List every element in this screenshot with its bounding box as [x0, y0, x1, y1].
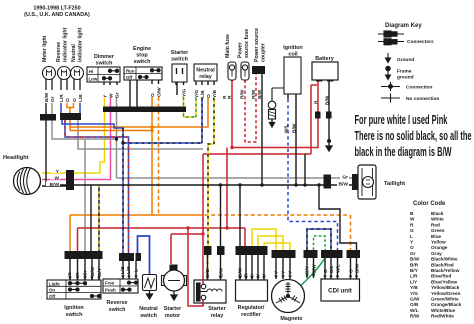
svg-text:(U.S., U.K. AND CANADA): (U.S., U.K. AND CANADA) [24, 12, 90, 18]
svg-text:G: G [410, 228, 414, 233]
svg-text:B/W: B/W [355, 263, 361, 273]
svg-text:No connection: No connection [406, 96, 439, 102]
svg-text:Headlight: Headlight [3, 155, 29, 161]
svg-text:Neutral: Neutral [139, 306, 158, 312]
svg-text:switch: switch [134, 59, 151, 65]
svg-text:W: W [109, 93, 115, 98]
svg-text:G/W: G/W [312, 264, 318, 274]
svg-text:Starter: Starter [171, 50, 189, 56]
svg-text:Black/Yellow: Black/Yellow [431, 268, 460, 273]
svg-text:Battery: Battery [315, 56, 334, 62]
svg-text:black in the diagram is B/W: black in the diagram is B/W [355, 145, 452, 160]
svg-text:ground: ground [397, 75, 414, 81]
svg-text:Connection: Connection [406, 85, 432, 91]
svg-text:L/Y: L/Y [410, 279, 418, 284]
svg-text:R/W: R/W [251, 89, 257, 99]
svg-text:Run: Run [126, 69, 135, 74]
svg-text:W/L: W/L [284, 124, 290, 133]
svg-text:W: W [54, 175, 59, 181]
svg-text:Orange: Orange [431, 245, 448, 250]
svg-text:L/R: L/R [59, 94, 65, 102]
svg-text:There is no solid black, so al: There is no solid black, so all the [355, 129, 472, 144]
svg-text:Y/B: Y/B [205, 268, 211, 277]
svg-text:Free: Free [105, 281, 115, 286]
svg-text:White: White [431, 217, 444, 222]
svg-text:R: R [75, 272, 81, 276]
svg-text:Gr: Gr [342, 174, 348, 180]
svg-text:stop: stop [136, 53, 148, 59]
svg-text:O: O [72, 98, 78, 102]
svg-text:O: O [150, 93, 156, 97]
svg-text:Regulator/: Regulator/ [238, 305, 265, 311]
svg-text:switch: switch [66, 312, 83, 318]
svg-text:White/Blue: White/Blue [431, 308, 456, 313]
svg-text:B/W: B/W [238, 267, 244, 277]
svg-text:O/W: O/W [157, 87, 163, 97]
svg-text:Low: Low [89, 76, 98, 81]
svg-text:Reverse: Reverse [56, 42, 62, 62]
svg-text:R: R [314, 100, 320, 104]
svg-text:O/B: O/B [410, 302, 419, 307]
svg-text:B/W: B/W [90, 266, 96, 276]
svg-text:B/W: B/W [410, 257, 420, 262]
svg-text:R/W: R/W [240, 89, 246, 99]
svg-text:Y/B: Y/B [410, 285, 418, 290]
svg-text:O: O [206, 94, 212, 98]
svg-text:Diagram Key: Diagram Key [385, 23, 422, 29]
svg-text:coil: coil [288, 52, 298, 58]
svg-text:Y/G: Y/G [182, 88, 188, 97]
svg-text:Y/G: Y/G [410, 291, 418, 296]
svg-text:L/B: L/B [200, 90, 206, 98]
svg-text:Green: Green [431, 228, 445, 233]
svg-text:L/R: L/R [410, 274, 418, 279]
svg-text:On: On [49, 288, 55, 293]
svg-text:Main fuse: Main fuse [225, 34, 231, 58]
svg-text:B/W: B/W [325, 95, 331, 105]
svg-text:L/B: L/B [78, 94, 84, 102]
svg-text:W: W [410, 217, 415, 222]
svg-text:B/R: B/R [410, 262, 419, 267]
svg-text:Y/B: Y/B [212, 89, 218, 98]
svg-text:B/W: B/W [339, 181, 349, 187]
svg-text:L: L [134, 269, 140, 272]
svg-text:B/Y: B/Y [410, 268, 419, 273]
svg-text:G: G [323, 269, 329, 273]
svg-text:CDI unit: CDI unit [328, 288, 352, 295]
svg-text:source fuse: source fuse [244, 29, 250, 58]
svg-text:Gray: Gray [431, 251, 442, 256]
svg-text:R: R [227, 95, 233, 99]
svg-text:L: L [410, 234, 413, 239]
svg-text:R/W: R/W [410, 314, 420, 319]
svg-text:Off: Off [49, 294, 56, 299]
svg-text:O: O [349, 269, 355, 273]
svg-text:Gr: Gr [410, 251, 416, 256]
svg-text:Ignition: Ignition [64, 305, 83, 311]
svg-text:Magneto: Magneto [280, 316, 303, 322]
svg-text:Orange/Black: Orange/Black [431, 302, 462, 307]
svg-text:Frame: Frame [397, 69, 412, 75]
svg-text:Red: Red [431, 222, 440, 227]
svg-text:switch: switch [96, 61, 113, 67]
svg-text:L/B: L/B [120, 266, 126, 274]
svg-text:B/L: B/L [329, 265, 335, 273]
svg-text:B/W: B/W [50, 182, 60, 188]
svg-text:B/W: B/W [219, 267, 225, 277]
svg-text:Blue/Yellow: Blue/Yellow [431, 279, 457, 284]
svg-text:O: O [65, 98, 71, 102]
svg-text:Neutral: Neutral [71, 44, 77, 62]
svg-text:Ignition: Ignition [283, 45, 302, 51]
svg-text:indicator light: indicator light [78, 27, 84, 62]
svg-text:O: O [410, 245, 414, 250]
svg-text:Reverse: Reverse [107, 300, 128, 306]
svg-text:relay: relay [211, 313, 224, 319]
svg-text:Blue/Red: Blue/Red [431, 274, 451, 279]
svg-text:W/L: W/L [336, 264, 342, 273]
svg-text:O: O [67, 272, 73, 276]
svg-text:Gr: Gr [115, 92, 121, 98]
svg-text:Light: Light [49, 281, 60, 286]
svg-text:motor: motor [165, 313, 181, 319]
svg-text:B/W: B/W [44, 92, 50, 102]
svg-text:Ground: Ground [397, 57, 414, 63]
svg-text:Power source: Power source [254, 28, 260, 62]
svg-text:switch: switch [140, 313, 157, 319]
svg-text:switch: switch [171, 57, 188, 63]
svg-text:For pure white I used Pink: For pure white I used Pink [355, 113, 448, 128]
svg-text:Meter light: Meter light [42, 36, 48, 62]
svg-text:Black/Red: Black/Red [431, 262, 454, 267]
svg-text:Starter: Starter [208, 306, 226, 312]
svg-text:Black: Black [431, 211, 444, 216]
svg-text:Blue: Blue [431, 234, 442, 239]
svg-text:Taillight: Taillight [384, 181, 405, 187]
svg-text:B/W: B/W [257, 89, 263, 99]
svg-text:Power: Power [238, 42, 244, 58]
svg-text:Red/White: Red/White [431, 314, 454, 319]
svg-text:relay: relay [199, 74, 212, 80]
svg-text:rectifier: rectifier [241, 312, 262, 318]
svg-text:Color Code: Color Code [413, 201, 446, 207]
svg-text:switch: switch [109, 307, 126, 313]
svg-text:Off: Off [126, 75, 133, 80]
svg-text:Engine: Engine [133, 46, 151, 52]
svg-text:Dimmer: Dimmer [94, 54, 115, 60]
svg-text:G/W: G/W [410, 297, 420, 302]
svg-text:Gr: Gr [83, 270, 89, 276]
svg-text:Black/White: Black/White [431, 257, 458, 262]
svg-text:L/R: L/R [126, 266, 132, 274]
svg-text:R: R [244, 273, 250, 277]
svg-text:Y/G: Y/G [194, 89, 200, 98]
svg-text:Starter: Starter [164, 306, 182, 312]
svg-text:B/Y: B/Y [305, 265, 311, 274]
svg-text:Hi: Hi [89, 69, 93, 74]
svg-text:B/Y: B/Y [97, 267, 103, 276]
svg-text:Gr: Gr [50, 96, 56, 102]
svg-text:Yellow: Yellow [431, 240, 446, 245]
svg-text:Connectors: Connectors [407, 39, 434, 45]
svg-text:Push: Push [105, 288, 116, 293]
svg-text:B/W: B/W [292, 123, 298, 133]
svg-text:coupler: coupler [261, 43, 267, 62]
svg-text:Green/White: Green/White [431, 297, 459, 302]
svg-text:1990-1998 LT-F250: 1990-1998 LT-F250 [33, 6, 80, 12]
svg-text:Yellow/Green: Yellow/Green [431, 291, 461, 296]
svg-text:Neutral: Neutral [196, 68, 215, 74]
svg-text:Yellow/Black: Yellow/Black [431, 285, 460, 290]
svg-text:W/L: W/L [410, 308, 419, 313]
svg-text:indicator light: indicator light [63, 27, 69, 62]
